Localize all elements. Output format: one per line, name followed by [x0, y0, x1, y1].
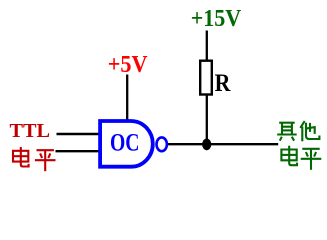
wire resistor to output node: [206, 95, 208, 145]
label dianping (right, 电): [281, 146, 297, 166]
svg-text:OC: OC: [110, 128, 140, 157]
wire input B: [56, 150, 100, 152]
svg-text:R: R: [215, 70, 232, 97]
label qita (其): [277, 123, 297, 141]
svg-text:TTL: TTL: [10, 120, 51, 142]
label qita (他): [300, 121, 319, 141]
svg-text:+5V: +5V: [108, 51, 148, 78]
wire output horizontal: [168, 143, 278, 145]
open-collector NAND gate U1 body: [100, 121, 153, 167]
wire +5V to gate top: [126, 75, 128, 122]
gate output inversion bubble: [157, 137, 167, 151]
wire input A: [57, 133, 100, 135]
svg-text:+15V: +15V: [191, 5, 242, 32]
wire +15V to resistor R: [206, 31, 208, 62]
label dianping (right, 平): [301, 149, 322, 170]
label dianping (left, 平): [35, 150, 56, 171]
resistor R body: [200, 61, 212, 95]
node junction dot: [202, 139, 211, 151]
label dianping (left, 电): [13, 147, 29, 167]
